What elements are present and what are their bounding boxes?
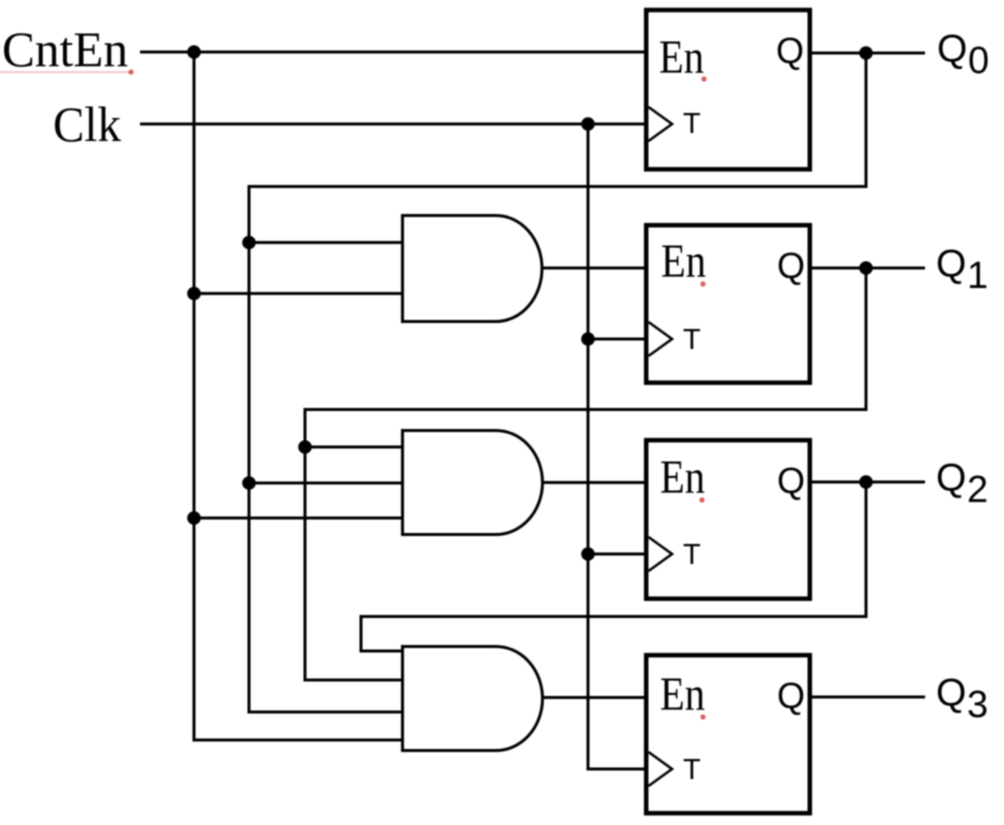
flip-flop U3 red speck	[699, 497, 704, 502]
wire Q2 output to label	[812, 481, 925, 484]
node AND1 top input junction	[242, 236, 256, 250]
svg-text:Q: Q	[936, 243, 966, 286]
node CntEn junction	[187, 45, 201, 59]
wire Q0 feedback	[249, 53, 866, 712]
svg-text:Q: Q	[777, 245, 805, 286]
svg-text:1: 1	[967, 255, 988, 297]
wire Clk horizontal	[140, 123, 648, 126]
flip-flop U4 box	[646, 655, 810, 813]
flip-flop U1 clock triangle	[649, 107, 673, 141]
svg-text:Q: Q	[936, 672, 966, 715]
node Q0 junction	[859, 46, 873, 60]
wire Q2 feedback	[361, 482, 866, 651]
flip-flop U2 box	[646, 225, 810, 383]
svg-text:Q: Q	[936, 457, 966, 500]
wire Clk vertical bus	[588, 124, 648, 769]
svg-text:En: En	[661, 235, 706, 288]
svg-text:T: T	[683, 754, 701, 786]
node Q1 junction	[859, 261, 873, 275]
flip-flop U2 clock triangle	[649, 322, 673, 356]
wire Q1 feedback	[305, 268, 866, 680]
wire Q1 to AND2 input	[305, 446, 402, 449]
wire AND1 output to FF2 En	[542, 267, 648, 270]
svg-text:0: 0	[968, 40, 989, 82]
svg-text:T: T	[683, 539, 701, 571]
node AND2 bottom input junction	[187, 511, 201, 525]
wire Q0 to AND2 input	[249, 482, 402, 485]
svg-text:Clk: Clk	[53, 96, 121, 152]
node Clk junction	[581, 117, 595, 131]
flip-flop U3 box	[646, 440, 810, 599]
flip-flop U2 red speck	[700, 281, 705, 286]
node FF2 T junction	[581, 332, 595, 346]
flip-flop U4 red speck	[700, 714, 705, 719]
AND gate G3	[403, 647, 543, 751]
flip-flop U1 box	[646, 10, 810, 169]
node Q2 junction	[859, 475, 873, 489]
spellcheck underline under CntEn	[0, 69, 134, 74]
svg-text:Q: Q	[777, 675, 805, 716]
wire Clk to FF2 T	[588, 338, 648, 341]
svg-text:En: En	[660, 668, 705, 721]
svg-text:En: En	[659, 31, 704, 84]
wire Q0 output to label	[812, 52, 925, 55]
wire CntEn to AND1 input	[194, 292, 402, 295]
svg-text:CntEn: CntEn	[2, 21, 128, 77]
AND gate G1	[403, 216, 543, 322]
label Q0	[937, 28, 989, 83]
svg-text:Q: Q	[937, 28, 967, 71]
node FF3 T junction	[581, 547, 595, 561]
node AND1 bottom input junction	[187, 287, 201, 301]
wire Q3 output to label	[812, 696, 925, 699]
node AND2 top input junction	[298, 440, 312, 454]
flip-flop U4 clock triangle	[649, 752, 673, 786]
wire CntEn horizontal	[140, 51, 646, 54]
svg-text:3: 3	[967, 684, 988, 726]
AND gate G2	[403, 431, 543, 535]
svg-text:T: T	[683, 324, 701, 356]
svg-text:Q: Q	[777, 460, 805, 501]
svg-text:2: 2	[967, 469, 988, 511]
wire CntEn vertical bus	[194, 52, 401, 740]
svg-text:En: En	[660, 451, 705, 504]
label Q1	[936, 243, 988, 298]
svg-text:Q: Q	[776, 30, 804, 71]
svg-text:T: T	[683, 108, 701, 140]
wire Clk to FF3 T	[588, 553, 648, 556]
node AND2 middle input junction	[242, 476, 256, 490]
flip-flop U3 clock triangle	[649, 537, 673, 571]
wire CntEn to AND2 input	[194, 517, 402, 520]
label Q3	[936, 672, 988, 727]
wire AND3 output to FF4 En	[542, 696, 648, 699]
wire Q1 output to label	[812, 267, 925, 270]
wire AND2 output to FF3 En	[542, 481, 648, 484]
label Q2	[936, 457, 988, 512]
flip-flop U1 red speck	[701, 76, 706, 81]
wire Q0 to AND1 input	[249, 241, 402, 244]
